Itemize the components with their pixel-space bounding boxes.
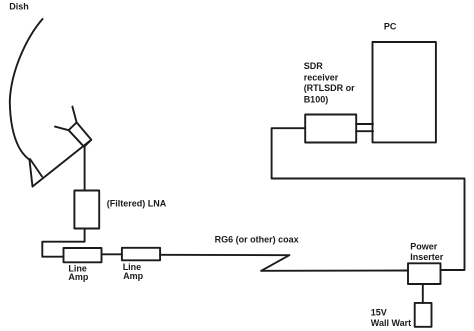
svg-text:Wall Wart: Wall Wart: [371, 318, 411, 328]
feedhorn: [69, 122, 92, 146]
svg-text:Power: Power: [410, 242, 438, 252]
USB line upper: [356, 123, 373, 125]
svg-text:PC: PC: [384, 22, 397, 32]
feed arm: [33, 140, 92, 187]
svg-text:B100): B100): [304, 94, 329, 104]
USB line lower: [356, 130, 373, 132]
PC box: [373, 42, 436, 142]
svg-text:(RTLSDR or: (RTLSDR or: [304, 83, 355, 93]
coax wire upper: [160, 254, 289, 256]
wire power inserter to SDR: [272, 128, 465, 270]
feed strut upper: [72, 107, 76, 123]
line amp 1 box: [64, 248, 102, 262]
svg-text:SDR: SDR: [304, 61, 324, 71]
dish reflector arc: [10, 19, 43, 160]
svg-text:Dish: Dish: [9, 1, 29, 11]
SDR receiver box: [305, 115, 356, 143]
LNA box: [74, 191, 99, 229]
svg-text:receiver: receiver: [304, 72, 339, 82]
svg-text:RG6 (or other) coax: RG6 (or other) coax: [215, 234, 299, 244]
dish mount line: [30, 160, 33, 187]
svg-text:Amp: Amp: [68, 272, 89, 282]
wire feed to LNA: [84, 147, 86, 191]
svg-text:(Filtered) LNA: (Filtered) LNA: [107, 199, 167, 209]
coax break diagonal: [261, 255, 289, 271]
feed strut left: [55, 127, 69, 131]
line amp 2 box: [122, 248, 160, 260]
wire power inserter to wall wart: [422, 284, 424, 303]
svg-text:15V: 15V: [371, 307, 387, 317]
dish rim line: [30, 159, 42, 177]
wall wart box: [415, 303, 432, 327]
wire LNA to line amp 1: [42, 229, 84, 257]
svg-text:Amp: Amp: [123, 271, 144, 281]
coax wire lower: [261, 270, 408, 272]
svg-text:Inserter: Inserter: [410, 252, 444, 262]
wire amp1 to amp2: [102, 253, 122, 255]
power inserter box: [408, 263, 441, 284]
